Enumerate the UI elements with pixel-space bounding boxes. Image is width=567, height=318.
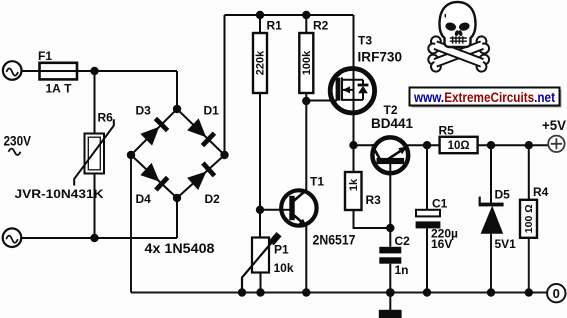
svg-text:D5: D5 xyxy=(495,188,511,202)
junction dot: fuse/R6 xyxy=(90,67,98,75)
svg-text:+5V: +5V xyxy=(542,117,567,133)
svg-text:R6: R6 xyxy=(98,111,114,125)
svg-text:IRF730: IRF730 xyxy=(358,49,403,65)
resistor R1 xyxy=(253,33,267,93)
www.ExtremeCircuits.net banner xyxy=(410,88,562,108)
svg-text:0: 0 xyxy=(553,286,560,301)
resistor R3 xyxy=(345,172,362,210)
MOSFET T3 IRF730 xyxy=(330,69,374,113)
diode D1 xyxy=(187,118,216,147)
svg-text:R4: R4 xyxy=(533,185,549,199)
svg-text:D3: D3 xyxy=(136,104,152,118)
skull teeth xyxy=(450,36,467,43)
diode D2 xyxy=(187,161,216,190)
wire: D5 cathode lead xyxy=(490,145,492,203)
wire: varistor R6 top lead xyxy=(94,71,96,134)
wire: D5 anode lead xyxy=(490,234,492,293)
wire: T3 drain from top rail xyxy=(353,15,355,80)
svg-text:16V: 16V xyxy=(431,237,452,251)
junction dot: +5V rail C1 xyxy=(423,141,431,149)
junction dot: R6/neutral xyxy=(90,234,98,242)
varistor R6 xyxy=(74,119,114,185)
junction dot: rail C1 xyxy=(423,288,431,296)
wire: gate lead to T3 xyxy=(306,100,336,102)
junction dot: bridge right node xyxy=(220,151,228,159)
wire: neutral from lower AC terminal to bridge bottom xyxy=(21,237,177,239)
svg-text:T3: T3 xyxy=(358,34,372,48)
wire: stub below rail to cropped ground bar xyxy=(389,293,391,311)
svg-text:JVR-10N431K: JVR-10N431K xyxy=(15,187,104,201)
wire: bottom 0V rail xyxy=(131,292,547,294)
svg-text:P1: P1 xyxy=(274,242,289,256)
skull brow mark xyxy=(444,14,446,18)
wire: R1 bottom lead down to T1 base node and P1 xyxy=(259,93,261,238)
svg-text:1n: 1n xyxy=(395,263,409,277)
junction dot: rail T1 emitter xyxy=(302,288,310,296)
output terminal +5V xyxy=(548,136,564,152)
wire: varistor R6 bottom lead xyxy=(94,174,96,239)
junction dot: T1 base node xyxy=(256,206,264,214)
wire: T1 base lead xyxy=(260,209,290,211)
transistor T1 2N6517 xyxy=(280,190,317,227)
AC terminal (bottom neutral) xyxy=(3,228,22,247)
potentiometer P1 body xyxy=(252,238,269,273)
output terminal 0V xyxy=(547,284,565,302)
potentiometer P1 wiper arrow xyxy=(242,234,279,292)
wire: vertical drop into bridge top node xyxy=(176,71,178,109)
junction dot: T3 source node xyxy=(349,141,357,149)
resistor R4 xyxy=(520,200,537,238)
wire: live from AC terminal through fuse to bridge top corner xyxy=(22,70,178,72)
svg-text:D1: D1 xyxy=(204,104,220,118)
wire: top rail xyxy=(225,14,354,16)
junction dot: R3/T2 base node xyxy=(386,224,394,232)
svg-text:1A T: 1A T xyxy=(46,82,73,96)
svg-text:4x 1N5408: 4x 1N5408 xyxy=(145,240,215,256)
resistor R5 xyxy=(440,137,478,153)
svg-text:R2: R2 xyxy=(313,19,329,33)
wire: bridge minus (left node) drop to 0V rail xyxy=(130,155,132,293)
junction dot: top rail R2 xyxy=(302,11,310,19)
wire: R3 bottom L-bend to T2 base node xyxy=(354,210,391,228)
svg-text:D2: D2 xyxy=(205,192,221,206)
svg-text:R5: R5 xyxy=(439,124,455,138)
junction dot: +5V rail R4 xyxy=(525,141,533,149)
junction dot: rail D5 xyxy=(487,288,495,296)
wire: P1 bottom lead xyxy=(260,273,262,293)
junction dot: bridge left node xyxy=(127,151,135,159)
wire: bridge plus (right node) riser to top rail xyxy=(224,15,226,155)
svg-text:R1: R1 xyxy=(267,19,283,33)
wire: T3 source down to node with R3 and T2 xyxy=(353,100,355,145)
junction dot: +5V rail D5 xyxy=(487,141,495,149)
diode D4 xyxy=(140,163,169,192)
svg-text:10Ω: 10Ω xyxy=(448,140,470,152)
svg-text:R3: R3 xyxy=(366,193,382,207)
zener diode D5 xyxy=(479,197,504,234)
svg-text:C1: C1 xyxy=(432,196,448,210)
wire: T2 base down through node to C2 xyxy=(389,161,391,247)
skull cranium and jaw xyxy=(440,2,476,47)
bridge rectifier edges xyxy=(131,109,225,198)
skull and crossbones warning symbol xyxy=(427,2,491,73)
cropped ground bar at image bottom edge xyxy=(379,310,402,318)
wire: source node across to T2 collector xyxy=(354,144,374,146)
skull left eye socket xyxy=(444,21,456,31)
svg-text:D4: D4 xyxy=(136,192,152,206)
wire: gate node down to T1 collector xyxy=(305,101,307,190)
svg-text:F1: F1 xyxy=(38,49,52,63)
wire: R4 bottom lead xyxy=(528,238,530,293)
capacitor C2 xyxy=(379,247,401,264)
junction dot: top rail R1 xyxy=(256,11,264,19)
junction dot: rail R4 xyxy=(525,288,533,296)
svg-text:230V: 230V xyxy=(4,133,32,149)
skull right eye socket xyxy=(458,21,470,31)
fuse F1 xyxy=(40,63,78,80)
AC terminal (top live) xyxy=(3,61,22,80)
wire: R1 top lead xyxy=(259,15,261,33)
junction dot: bridge top node xyxy=(173,105,181,113)
wire: T2 emitter lead and +5V rail xyxy=(406,144,548,146)
wire: C1 top lead xyxy=(426,145,428,210)
capacitor C1 (electrolytic) xyxy=(416,210,441,229)
wire: R4 top lead xyxy=(528,145,530,200)
junction dot: bridge bottom node xyxy=(173,194,181,202)
junction dot: gate node xyxy=(302,97,310,105)
wire: C2 bottom lead to 0V rail xyxy=(389,264,391,293)
svg-text:220k: 220k xyxy=(255,50,267,75)
wire: node down to R3 top xyxy=(353,145,355,172)
transistor T2 BD441 xyxy=(371,137,408,173)
wire: R2 bottom lead to gate node xyxy=(305,93,307,101)
svg-text:5V1: 5V1 xyxy=(495,237,517,251)
svg-text:100 Ω: 100 Ω xyxy=(523,204,535,233)
junction dot: rail P1 wiper xyxy=(238,288,246,296)
svg-text:100k: 100k xyxy=(301,50,313,75)
bone lower-left to upper-right xyxy=(427,35,491,73)
junction dot: rail C2 xyxy=(386,288,395,297)
wire: R2 top lead xyxy=(305,15,307,33)
svg-text:www.ExtremeCircuits.net: www.ExtremeCircuits.net xyxy=(413,90,555,105)
diode D3 xyxy=(140,117,169,146)
svg-text:BD441: BD441 xyxy=(371,115,413,131)
wire: bridge bottom node stub down to neutral xyxy=(176,198,178,238)
AC tilde under 230V xyxy=(9,149,21,155)
wire: T1 emitter down to 0V rail xyxy=(305,226,307,293)
svg-text:C2: C2 xyxy=(395,234,411,248)
junction dot: rail P1 bottom xyxy=(256,288,264,296)
svg-text:1k: 1k xyxy=(348,178,360,191)
resistor R2 xyxy=(299,33,313,93)
wire: C1 bottom lead xyxy=(426,228,428,292)
svg-text:10k: 10k xyxy=(274,261,294,275)
bone upper-left to lower-right xyxy=(427,35,491,73)
svg-text:T1: T1 xyxy=(310,175,324,189)
svg-text:2N6517: 2N6517 xyxy=(313,232,356,248)
skull nose xyxy=(454,30,459,37)
